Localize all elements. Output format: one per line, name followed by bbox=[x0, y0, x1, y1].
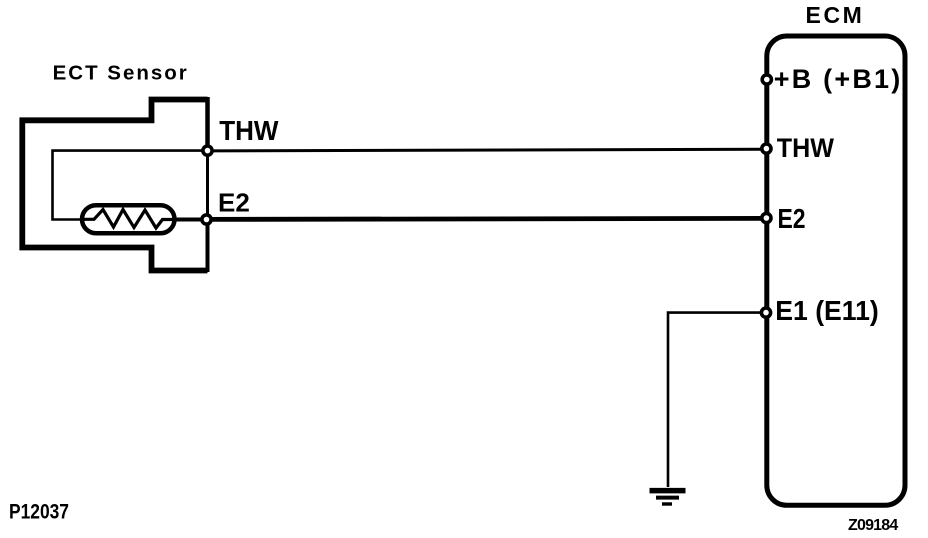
sensor connector column (upper segment) bbox=[205, 97, 210, 146]
node THW at ECM bbox=[762, 144, 771, 153]
node +B at ECM bbox=[762, 75, 771, 84]
sensor connector column (middle segment) bbox=[206, 146, 209, 224]
sensor connector column (lower segment) bbox=[206, 224, 210, 272]
ECT sensor body outline bbox=[22, 100, 207, 271]
node E2 at ECM bbox=[762, 213, 771, 222]
svg-text:E1 (E11): E1 (E11) bbox=[775, 294, 878, 326]
svg-text:ECM: ECM bbox=[806, 2, 865, 28]
wire thermistor to E2 node bbox=[174, 218, 206, 222]
svg-text:ECT Sensor: ECT Sensor bbox=[53, 62, 189, 85]
svg-text:E2: E2 bbox=[218, 188, 250, 218]
internal wire THW to thermistor bbox=[53, 151, 207, 220]
svg-text:THW: THW bbox=[777, 132, 835, 163]
node E2 at sensor bbox=[202, 215, 211, 224]
svg-text:THW: THW bbox=[219, 115, 279, 146]
wire E2 (sensor to ECM) bbox=[207, 218, 767, 219]
svg-text:Z09184: Z09184 bbox=[848, 517, 898, 534]
thermistor zigzag element bbox=[82, 210, 175, 229]
ground symbol bbox=[650, 491, 686, 504]
thermistor capsule bbox=[82, 205, 175, 233]
wire THW (sensor to ECM) bbox=[208, 149, 767, 151]
wire E1 to ground bbox=[668, 313, 766, 487]
node E1 at ECM bbox=[761, 308, 770, 317]
ECM box bbox=[767, 36, 905, 505]
svg-text:P12037: P12037 bbox=[9, 500, 69, 524]
svg-text:+B (+B1): +B (+B1) bbox=[774, 64, 903, 94]
svg-text:E2: E2 bbox=[778, 204, 806, 235]
node THW at sensor bbox=[203, 146, 212, 155]
